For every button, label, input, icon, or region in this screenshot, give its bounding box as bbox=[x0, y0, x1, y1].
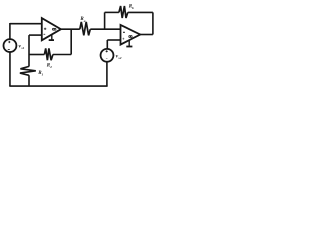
svg-text:R1: R1 bbox=[38, 71, 43, 77]
svg-text:Rb: Rb bbox=[129, 5, 134, 11]
svg-text:R2: R2 bbox=[47, 63, 52, 69]
svg-text:Ra: Ra bbox=[80, 17, 85, 23]
